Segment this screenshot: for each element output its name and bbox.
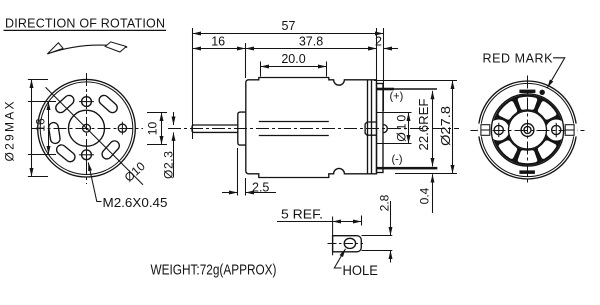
svg-text:RED MARK: RED MARK [483,51,554,65]
dimension 16 (shaft) [193,34,246,78]
front bushing [238,112,246,145]
front view horizontal centerline [32,128,144,130]
rotation direction arrow [47,42,127,54]
dimension 2.5 (bushing length) [222,148,276,196]
svg-text:HOLE: HOLE [343,263,379,278]
can band upper edge [259,121,329,123]
svg-text:Ø29MAX: Ø29MAX [3,102,17,162]
rear crosshair horizontal [471,130,585,132]
dimension Ø29MAX [3,80,49,177]
dimension 22.6REF [416,91,432,167]
rear crosshair vertical [527,76,529,185]
front view boss circle Ø10 [69,110,105,146]
terminal plus [377,88,438,91]
svg-text:5 REF.: 5 REF. [281,206,323,221]
rear screw hole white surrounds [488,120,509,141]
can end seam line [367,80,369,174]
rear bottom bar [519,170,535,174]
front view vent slot left [48,122,61,144]
dimension 2.8 [362,194,393,262]
motor body outline [246,78,377,178]
rear screw hole right [552,123,561,137]
dimension 2 [362,34,398,48]
title text DIRECTION OF ROTATION [4,16,167,30]
svg-text:16: 16 [211,34,225,48]
terminal minus [377,167,438,170]
rear view outer circle [479,81,577,179]
svg-text:37.8: 37.8 [299,34,323,48]
svg-text:0.4: 0.4 [418,187,432,204]
rear center bearing circle [521,124,534,137]
rear cap strip [377,84,384,173]
svg-text:WEIGHT:72g(APPROX): WEIGHT:72g(APPROX) [151,262,277,279]
front view shaft circle [83,124,91,132]
svg-text:10: 10 [145,122,159,136]
dimension Ø27.8 [374,81,457,174]
end bell seam line [371,80,373,174]
rear screw hole left [494,123,503,137]
red mark dot [540,90,545,95]
dimension 5 REF. [277,206,362,225]
front view vent slot lower right [100,139,121,161]
dimension 0.4 (terminal thickness) [418,174,433,213]
front view inner rim circle [40,82,133,175]
rear center shaft circle [524,127,531,134]
hole detail oval hole [344,238,355,248]
rear left terminal tab [478,124,491,137]
svg-text:Ø10: Ø10 [394,115,408,142]
front view outer circle [38,79,136,177]
front view diagonal leader line [46,87,144,185]
dimension 10 (bushing) [145,113,167,145]
leader HOLE [334,249,378,278]
front view top screw hole M2.6 [79,94,94,109]
svg-text:Ø2.3: Ø2.3 [162,151,176,179]
front view right hole [118,122,126,135]
rear vent slots (white with outline) [496,96,558,164]
svg-text:16: 16 [33,118,47,132]
svg-text:22.6REF: 22.6REF [416,98,431,150]
rear bearing boss [365,122,376,135]
front view vent slot upper right [97,93,119,114]
leader M2.6X0.45 [88,163,167,211]
rear top bar [519,90,535,93]
label RED MARK with leader [483,51,565,88]
hole detail left edge extension [332,217,334,256]
dimension 16 (hole spacing) [28,102,56,155]
side view centerline [168,128,459,130]
rear shaft end bump [383,125,387,133]
svg-text:Ø10: Ø10 [122,159,148,185]
rear vent ring web (black annulus) [492,95,563,166]
svg-text:DIRECTION OF ROTATION: DIRECTION OF ROTATION [5,16,165,30]
rear view inner rim circle [481,83,574,176]
front view vent slot lower left [55,143,77,164]
svg-text:20.0: 20.0 [281,52,305,66]
hole detail plate [333,236,362,252]
svg-text:Ø27.8: Ø27.8 [439,106,453,146]
dimension 57 [193,19,384,139]
dimension Ø2.3 (shaft) [162,112,176,179]
svg-text:(+): (+) [390,91,404,103]
svg-text:(-): (-) [392,154,403,166]
dimension 20.0 [261,52,327,77]
dimension Ø10 (rear cap) [377,113,412,144]
svg-text:M2.6X0.45: M2.6X0.45 [103,195,168,210]
shaft [192,125,238,132]
svg-text:57: 57 [282,19,296,33]
svg-text:2.8: 2.8 [377,194,391,211]
rear boss circle [509,111,547,149]
rear right terminal tab [565,124,578,137]
hole detail centerline [328,243,364,245]
svg-text:2: 2 [375,34,382,48]
rear ring outer circle [491,94,563,166]
front view vent slot upper left [54,93,76,114]
front view vertical centerline [86,73,88,184]
svg-text:2.5: 2.5 [252,180,269,194]
dimension 37.8 [246,28,377,84]
front view bottom screw hole M2.6 [79,147,94,162]
can band lower edge [259,135,329,137]
